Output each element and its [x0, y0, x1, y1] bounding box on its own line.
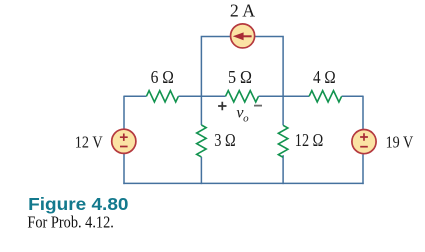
voltage source 19V minus sign	[360, 146, 368, 148]
svg-text:19 V: 19 V	[386, 133, 414, 152]
wire: top loop left vertical + top left horizontal	[201, 37, 230, 97]
wire: left branch verticals around 12V source	[123, 96, 125, 185]
voltage source 12V circle	[112, 129, 136, 153]
svg-text:12 Ω: 12 Ω	[295, 132, 324, 151]
current source 2A arrow	[243, 35, 251, 37]
wire: right branch verticals around 19V source	[362, 96, 364, 185]
current source 2A circle	[231, 24, 255, 48]
polarity minus for vo	[254, 105, 262, 107]
voltage source 12V minus sign	[120, 146, 128, 148]
voltage source 12V plus sign	[120, 134, 128, 141]
svg-text:Figure 4.80: Figure 4.80	[28, 195, 128, 214]
resistor R 3-ohm vertical zigzag	[197, 125, 207, 157]
wire: main horizontal segments at y=96.3	[124, 95, 363, 97]
wire: 12-ohm branch verticals	[282, 96, 284, 184]
svg-text:For Prob. 4.12.: For Prob. 4.12.	[27, 213, 113, 231]
svg-text:3 Ω: 3 Ω	[214, 132, 235, 151]
wire: bottom horizontal	[123, 182, 363, 184]
polarity plus for vo	[218, 102, 226, 110]
wire: top right horizontal + right vertical of top loop	[255, 37, 283, 97]
voltage source 19V circle	[352, 130, 376, 154]
svg-text:12 V: 12 V	[75, 133, 103, 152]
resistor R 6-ohm zigzag	[146, 91, 178, 102]
voltage source 19V plus sign	[360, 133, 368, 140]
resistor R 12-ohm vertical zigzag	[278, 125, 288, 157]
wire: 3-ohm branch verticals	[200, 96, 202, 184]
svg-text:2 A: 2 A	[230, 1, 255, 21]
resistor R 4-ohm zigzag	[309, 91, 342, 102]
svg-text:6 Ω: 6 Ω	[151, 67, 174, 87]
svg-text:5 Ω: 5 Ω	[228, 67, 252, 87]
resistor R 5-ohm zigzag	[226, 91, 259, 102]
svg-text:4 Ω: 4 Ω	[313, 67, 336, 87]
svg-text:o: o	[243, 112, 249, 124]
